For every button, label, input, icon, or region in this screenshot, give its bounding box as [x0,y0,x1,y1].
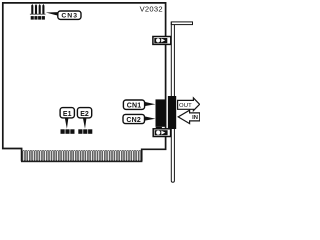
connector block (CN1/CN2 jacks) [156,99,166,126]
card edge connector fingers [23,150,141,161]
jumper E2 pads [78,129,92,134]
bottom screw tab [153,129,170,137]
svg-text:OUT: OUT [179,103,192,109]
pointer wedge CN3 [46,12,58,16]
label E2 [77,108,91,118]
svg-text:E2: E2 [80,111,89,118]
arrow OUT [178,98,200,111]
pointer wedge CN1 [145,102,156,106]
pointer wedge E1 [65,118,69,129]
connector block through-bracket part [168,96,176,129]
label CN1 [123,100,144,110]
svg-text:CN2: CN2 [126,117,141,124]
board outline [3,3,166,161]
svg-text:IN: IN [192,115,198,121]
bracket vertical [171,22,174,182]
bracket flange (top) [171,22,192,25]
connector block lower stub [156,127,162,131]
svg-text:CN3: CN3 [61,13,78,20]
top screw tab [153,37,171,45]
pointer wedge CN2 [145,116,156,120]
pointer wedge E2 [83,118,87,129]
label CN2 [123,114,145,123]
label CN3 [58,11,81,20]
label E1 [60,108,74,118]
svg-text:V2032: V2032 [140,4,163,13]
svg-text:CN1: CN1 [127,103,142,110]
jumper E1 pads [61,129,75,134]
arrow IN [178,110,200,123]
connector CN3 header icon [30,4,46,20]
svg-text:E1: E1 [63,111,72,118]
card edge connector baseline [21,160,142,162]
